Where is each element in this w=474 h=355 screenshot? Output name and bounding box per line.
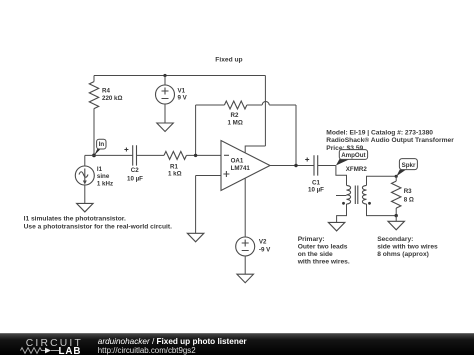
ground below V1 [157, 123, 174, 132]
capacitor C1 [305, 155, 324, 193]
svg-text:Fixed up: Fixed up [215, 57, 242, 64]
resistor R2 [196, 101, 263, 126]
transformer XFMR2 [336, 166, 396, 223]
secondary phase dot [368, 202, 371, 205]
footer logo arrow [45, 348, 51, 354]
wire C1 to transformer [318, 165, 336, 167]
resistor R1 [137, 151, 222, 177]
wire op-amp V+ pin [245, 146, 265, 153]
node junction R1 / R2 / inverting input [194, 154, 197, 157]
svg-text:R4: R4 [102, 88, 110, 95]
secondary winding [362, 185, 366, 204]
svg-text:Use a phototransistor for the: Use a phototransistor for the real-world… [24, 223, 172, 230]
footer logo waveform [21, 348, 60, 354]
node junction Spkr / R3 [395, 175, 398, 178]
ground transformer primary [328, 222, 345, 231]
primary winding [347, 185, 351, 204]
voltage source V2 [236, 237, 271, 274]
footer bar [0, 333, 474, 355]
svg-text:OA1: OA1 [231, 157, 244, 164]
primary lead bottom [337, 204, 347, 222]
svg-text:220 kΩ: 220 kΩ [102, 95, 122, 102]
core [355, 186, 358, 205]
wire R2 left vertical to inverting node [195, 105, 197, 155]
secondary lead bottom [367, 204, 397, 216]
node flag AmpOut [336, 150, 368, 166]
svg-text:R3: R3 [404, 188, 412, 195]
node junction top rail / V1 [163, 74, 166, 77]
svg-text:Outer two leads: Outer two leads [298, 244, 348, 251]
svg-text:RadioShack® Audio Output Trans: RadioShack® Audio Output Transformer [326, 136, 454, 144]
svg-text:R2: R2 [231, 112, 239, 119]
svg-text:I1: I1 [97, 166, 103, 173]
svg-text:R1: R1 [170, 163, 178, 170]
svg-text:on the side: on the side [298, 251, 333, 258]
ground below V2 [237, 274, 254, 283]
node junction secondary bottom [395, 214, 398, 217]
svg-text:with three wires.: with three wires. [297, 258, 350, 265]
svg-text:Primary:: Primary: [298, 236, 325, 243]
wire output drop vertical [295, 105, 297, 166]
svg-text:Secondary:: Secondary: [377, 236, 413, 243]
annotation primary note [297, 236, 350, 265]
ground below I1 [77, 203, 94, 212]
svg-text:C2: C2 [131, 167, 139, 174]
current source I1 [75, 155, 113, 203]
svg-text:AmpOut: AmpOut [341, 152, 365, 159]
annotation secondary note [377, 236, 438, 258]
secondary lead top [367, 176, 397, 185]
wire non-inverting input [196, 175, 221, 177]
node junction In / R4 / input net [92, 154, 96, 158]
wire top rail from R4 to V+ drop [94, 75, 265, 77]
primary phase dot [342, 202, 345, 205]
primary center tap [336, 195, 347, 197]
svg-text:1 MΩ: 1 MΩ [228, 119, 243, 126]
wire R2 right to output drop [269, 104, 296, 106]
wire secondary to ground [395, 216, 397, 222]
wire hop over V+ drop [262, 102, 269, 105]
ground transformer secondary [388, 221, 405, 230]
svg-text:sine: sine [97, 173, 110, 180]
wire op-amp output [270, 165, 314, 167]
svg-text:Spkr: Spkr [402, 162, 416, 169]
svg-text:LAB: LAB [59, 346, 82, 355]
annotation transformer model [326, 130, 454, 153]
op-amp OA1 [221, 141, 270, 191]
svg-text:V2: V2 [259, 239, 267, 246]
svg-text:10 µF: 10 µF [127, 176, 143, 183]
svg-text:XFMR2: XFMR2 [346, 166, 368, 173]
wire input net I1 to C2 [85, 154, 133, 156]
svg-text:9 V: 9 V [178, 95, 188, 102]
svg-text:10 µF: 10 µF [308, 187, 324, 194]
svg-text:In: In [99, 141, 105, 148]
resistor R4 [89, 76, 122, 156]
svg-text:V1: V1 [178, 87, 186, 94]
resistor R3 [392, 176, 414, 215]
svg-text:LM741: LM741 [231, 165, 251, 172]
svg-text:1 kHz: 1 kHz [97, 180, 113, 187]
svg-text:-9 V: -9 V [259, 246, 271, 253]
svg-text:http://circuitlab.com/cbt9gs2: http://circuitlab.com/cbt9gs2 [98, 346, 196, 355]
svg-text:Model: EI-19 | Catalog #: 273-: Model: EI-19 | Catalog #: 273-1380 [326, 130, 433, 137]
svg-text:8 ohms (approx): 8 ohms (approx) [377, 251, 429, 258]
ground at non-inverting input [187, 233, 204, 242]
svg-text:I1 simulates the phototransist: I1 simulates the phototransistor. [24, 216, 126, 223]
node junction output / R2 feedback [294, 164, 297, 167]
capacitor C2 [124, 145, 143, 182]
svg-text:side with two wires: side with two wires [377, 244, 438, 251]
svg-text:1 kΩ: 1 kΩ [168, 171, 182, 178]
svg-text:arduinohacker / Fixed up photo: arduinohacker / Fixed up photo listener [98, 337, 248, 346]
wire non-inverting to ground vertical [195, 176, 197, 234]
wire op-amp V- pin [244, 178, 246, 237]
node flag Spkr [396, 159, 417, 177]
voltage source V1 [156, 76, 188, 124]
wire V+ drop vertical [264, 76, 266, 147]
primary lead top [336, 166, 347, 186]
annotation I1 note [24, 216, 172, 231]
svg-text:8 Ω: 8 Ω [404, 196, 414, 203]
node flag In [94, 139, 106, 155]
